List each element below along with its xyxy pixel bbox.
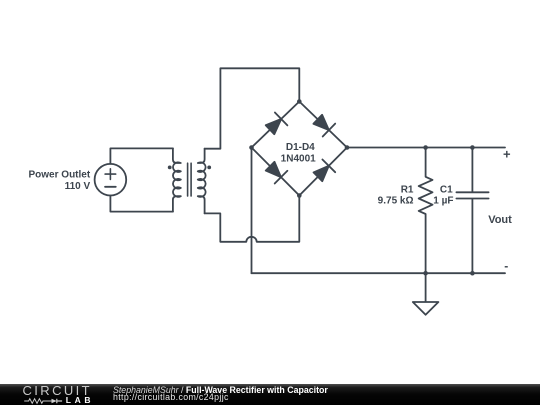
svg-text:-: - bbox=[504, 259, 508, 273]
label R1 9.75 kOhm bbox=[378, 184, 414, 206]
bridge edge bottom-right bbox=[299, 148, 347, 196]
ground symbol bbox=[413, 302, 439, 315]
diode D4 bottom-right bbox=[314, 160, 336, 182]
junction dot top rail R1 bbox=[423, 145, 428, 150]
CircuitLab logo LAB bbox=[66, 396, 94, 405]
wire bottom rail bbox=[252, 272, 506, 274]
CircuitLab logo resistor-diode doodle bbox=[24, 397, 64, 405]
node bridge top AC1 bbox=[297, 99, 302, 104]
resistor R1 bbox=[419, 148, 433, 274]
CircuitLab logo wordmark bbox=[23, 383, 93, 398]
label Power Outlet 110 V bbox=[29, 170, 91, 192]
voltage source V1 Power Outlet bbox=[95, 164, 127, 196]
footer url line bbox=[113, 393, 229, 402]
svg-text:D1-D4: D1-D4 bbox=[286, 142, 315, 153]
svg-text:C1: C1 bbox=[440, 184, 453, 195]
svg-text:1N4001: 1N4001 bbox=[281, 153, 316, 164]
wire transformer secondary bottom to bridge node AC2 with hop bbox=[205, 196, 300, 242]
transformer T1 primary phase dot bbox=[168, 166, 172, 170]
svg-text:9.75 kΩ: 9.75 kΩ bbox=[378, 196, 414, 207]
diode D2 top-right bbox=[313, 115, 335, 137]
wire source top to transformer primary bbox=[110, 148, 172, 164]
svg-text:1 µF: 1 µF bbox=[433, 196, 453, 207]
junction dot bottom rail C1 bbox=[470, 271, 475, 276]
footer credit line bbox=[113, 386, 328, 395]
node bridge right DC+ bbox=[345, 145, 350, 150]
node bridge left bbox=[249, 145, 254, 150]
bridge edge top-right bbox=[299, 102, 347, 148]
transformer T1 secondary phase dot bbox=[207, 166, 211, 170]
diode D3 bottom-left bbox=[266, 162, 288, 184]
junction dot top rail C1 bbox=[470, 145, 475, 150]
svg-text:R1: R1 bbox=[401, 184, 414, 195]
bridge edge top-left bbox=[252, 102, 300, 148]
transformer T1 primary winding bbox=[173, 148, 181, 211]
node bridge bottom AC2 bbox=[297, 193, 302, 198]
wire to ground bbox=[425, 273, 427, 302]
transformer T1 secondary winding bbox=[198, 149, 206, 214]
wire bridge left node down to bottom rail bbox=[251, 148, 253, 274]
transformer T1 core bbox=[188, 163, 192, 196]
diode D1 top-left bbox=[266, 113, 288, 135]
label D1-D4 1N4001 bbox=[281, 142, 316, 164]
svg-text:Power Outlet: Power Outlet bbox=[29, 170, 91, 181]
junction dot bottom rail R1/ground bbox=[423, 271, 428, 276]
bridge edge bottom-left bbox=[252, 148, 300, 196]
wire transformer secondary top to bridge node AC1 bbox=[205, 68, 300, 148]
svg-text:Vout: Vout bbox=[488, 214, 512, 226]
svg-text:110 V: 110 V bbox=[65, 181, 91, 192]
svg-text:+: + bbox=[503, 147, 511, 162]
label C1 1 uF bbox=[433, 184, 453, 206]
wire source bottom to transformer primary bbox=[110, 196, 172, 212]
footer bar bbox=[0, 384, 540, 405]
capacitor C1 bbox=[456, 148, 488, 274]
wire top rail bbox=[347, 147, 505, 149]
